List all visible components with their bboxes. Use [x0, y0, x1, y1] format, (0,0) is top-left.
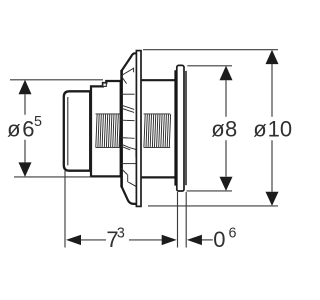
nut cone bottom profile	[122, 187, 138, 204]
cap inner chamfer line	[67, 97, 69, 165]
svg-text:10: 10	[268, 117, 292, 142]
svg-text:ø: ø	[211, 117, 224, 142]
thread hatch right patch	[144, 114, 171, 147]
nut ring face	[120, 70, 123, 187]
nut ribs	[121, 68, 137, 187]
nut cone top profile	[122, 53, 137, 70]
svg-text:3: 3	[117, 225, 125, 241]
svg-text:6: 6	[229, 225, 237, 241]
escutcheon back edge	[185, 71, 187, 185]
dimension ø 10	[143, 50, 278, 206]
svg-text:8: 8	[225, 117, 237, 142]
nut flange plate (ø10)	[136, 51, 141, 207]
escutcheon boss (ø8)	[177, 65, 184, 191]
dimension ø 8	[187, 66, 233, 191]
notch square on body top	[103, 83, 106, 86]
svg-text:0: 0	[213, 227, 225, 252]
dimension 7(3) bottom	[65, 171, 178, 248]
svg-text:6: 6	[22, 117, 34, 142]
thread hatch left patch	[96, 114, 121, 147]
dimension 0(6) bottom right	[186, 192, 213, 248]
svg-text:5: 5	[34, 114, 42, 130]
button body and bezel outline	[91, 81, 121, 176]
dimension ø 6(5) left	[10, 80, 103, 177]
tube between nut and escutcheon	[139, 80, 174, 177]
escutcheon front plate	[174, 70, 176, 185]
svg-text:ø: ø	[253, 117, 266, 142]
button cap	[64, 91, 90, 170]
svg-text:ø: ø	[7, 117, 20, 142]
